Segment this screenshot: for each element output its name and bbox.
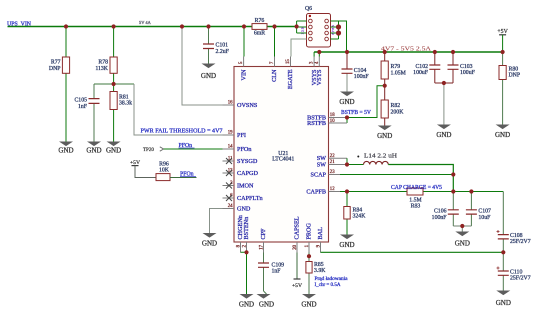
svg-text:1nF: 1nF (272, 269, 282, 275)
svg-text:CAP CHARGE = 4V5: CAP CHARGE = 4V5 (391, 185, 442, 191)
svg-text:16: 16 (228, 101, 233, 106)
capacitor C101 (203, 27, 230, 64)
power +5V (R96 pull-up) (130, 160, 156, 178)
resistor R80 (499, 52, 520, 125)
junction PROG pin / R85 (307, 254, 311, 258)
node PFOn label (R96) (180, 171, 196, 177)
svg-text:RSTFB: RSTFB (307, 120, 326, 127)
junction SCAP wire / L14 node (451, 172, 455, 176)
wire PFI to U21 (134, 84, 223, 135)
junction Q6 drain + C104 / VSYS bus (345, 50, 349, 54)
capacitor C104 (342, 52, 370, 92)
wire C102 C103 join (435, 82, 453, 84)
svg-text:6mR: 6mR (254, 31, 265, 37)
svg-text:PWR FAIL THRESHOLD = 4V7: PWR FAIL THRESHOLD = 4V7 (141, 128, 223, 134)
svg-text:GND: GND (237, 205, 251, 212)
junction BSTFB-RSTFB pins (345, 115, 349, 119)
svg-text:4V7 - 5V5 2.5A: 4V7 - 5V5 2.5A (381, 46, 432, 52)
svg-text:GND: GND (436, 131, 451, 139)
ground (R82) (377, 126, 392, 140)
svg-text:R84: R84 (353, 207, 363, 213)
wire SW bracket (347, 158, 364, 164)
svg-text:14: 14 (228, 145, 233, 150)
capacitor C109 (258, 253, 284, 295)
power +5V (top right) (497, 29, 508, 52)
junction Q6 drain bracket upper (336, 24, 341, 29)
svg-text:GND: GND (106, 146, 121, 154)
junction C106 / CAP CHARGE node (451, 189, 455, 193)
junction OVSNS tap / UPS_VIN bus (180, 24, 184, 28)
svg-text:17: 17 (259, 244, 264, 249)
junction VSYS pins / VSYS bus (317, 50, 321, 54)
svg-text:GND: GND (259, 300, 274, 308)
svg-text:C104: C104 (354, 68, 367, 74)
junction R84 / CAPFB wire (345, 189, 349, 193)
svg-text:DNP: DNP (509, 73, 521, 79)
svg-text:R81: R81 (119, 94, 129, 100)
svg-text:GND: GND (201, 72, 216, 80)
junction +5V R80 / VSYS bus (501, 50, 505, 54)
capacitor C106 (432, 192, 459, 227)
ground (C109) (257, 294, 275, 308)
capacitor C105 (74, 84, 99, 142)
op-amp U21 LTC4041 body (234, 67, 329, 243)
capacitor C102 (413, 52, 440, 83)
junction CLN pin drop / bus after R76 (272, 24, 276, 28)
svg-text:GND: GND (339, 98, 354, 106)
svg-text:100nF: 100nF (432, 215, 448, 221)
capacitor C110 supercap (497, 252, 531, 290)
svg-text:C107: C107 (478, 209, 491, 215)
wire VSYS bus 4V7-5V5 (314, 51, 503, 53)
resistor R83 (407, 188, 423, 210)
junction R79-R82 divider (BSTFB node) (383, 84, 387, 88)
svg-text:CAPSEL: CAPSEL (294, 216, 301, 239)
node UPS_VIN (7, 21, 32, 27)
svg-text:EGATE: EGATE (287, 69, 294, 89)
resistor R78 (95, 27, 117, 85)
junction VIN pin drop / UPS_VIN bus (242, 24, 246, 28)
svg-text:C105: C105 (74, 98, 87, 104)
wire L14 to SCAP node (388, 165, 453, 192)
svg-text:3.9K: 3.9K (314, 268, 326, 274)
junction R77 / UPS_VIN bus (64, 24, 68, 28)
svg-text:LTC4041: LTC4041 (272, 157, 294, 163)
svg-text:GND: GND (86, 146, 101, 154)
svg-text:SYSGD: SYSGD (237, 158, 258, 165)
svg-text:R79: R79 (391, 64, 401, 70)
ground (U21 GND) (202, 233, 217, 247)
capacitor C108 supercap (497, 192, 531, 253)
svg-text:OVSNS: OVSNS (237, 102, 258, 109)
svg-text:R85: R85 (314, 262, 324, 268)
wire UPS_VIN top bus (8, 26, 297, 28)
resistor R81 (110, 84, 132, 142)
svg-text:I_chr = 0.5A: I_chr = 0.5A (315, 282, 341, 288)
svg-text:24: 24 (228, 204, 233, 209)
ground (C102 C103) (436, 125, 451, 139)
svg-text:12: 12 (330, 187, 335, 192)
ground (C101) (201, 64, 216, 81)
svg-text:SCAP: SCAP (311, 171, 327, 178)
inductor L14 (357, 153, 398, 164)
svg-text:BSTFB = 5V: BSTFB = 5V (341, 110, 372, 116)
ground (R81) (106, 142, 121, 155)
svg-text:113K: 113K (95, 66, 108, 72)
svg-text:Q6: Q6 (305, 6, 312, 12)
capacitor C103 (448, 52, 476, 83)
junction CHGENn-BSTENn pins (244, 250, 248, 254)
svg-text:2.2uF: 2.2uF (216, 49, 230, 55)
svg-text:10K: 10K (159, 168, 170, 174)
wire CAPFB row (340, 191, 503, 193)
svg-text:C103: C103 (460, 64, 473, 70)
ground (C105) (86, 142, 101, 155)
node PFOn label (179, 143, 195, 149)
svg-text:PFI: PFI (237, 132, 246, 139)
wire Q6 source bracket (297, 21, 307, 33)
svg-text:CAPGD: CAPGD (237, 170, 259, 177)
svg-text:15: 15 (286, 59, 291, 64)
junction C103 / VSYS bus (451, 50, 455, 54)
svg-text:GND: GND (496, 299, 511, 307)
svg-text:25F/2V7: 25F/2V7 (510, 276, 531, 282)
svg-text:19: 19 (228, 131, 233, 136)
svg-text:GND: GND (58, 146, 73, 154)
ground (C104) (339, 92, 354, 107)
svg-text:100uF: 100uF (413, 70, 429, 76)
U21 left pins (223, 101, 263, 213)
capacitor C107 (466, 192, 491, 227)
svg-text:TP20: TP20 (143, 148, 154, 153)
svg-text:CLN: CLN (271, 69, 278, 82)
wire CLN drop (274, 27, 276, 57)
resistor R85 (306, 253, 326, 295)
svg-text:+5V: +5V (497, 29, 508, 35)
svg-text:200K: 200K (391, 109, 405, 115)
junction R78 / UPS_VIN bus (112, 24, 116, 28)
U21 top pins (239, 57, 323, 90)
svg-text:10: 10 (330, 119, 335, 124)
junction C102-C103 ground join (442, 81, 446, 85)
svg-text:VIN: VIN (240, 69, 247, 81)
svg-text:18: 18 (330, 113, 335, 118)
junction supercap midpoint / BAL wire (501, 250, 505, 254)
svg-text:GND: GND (301, 300, 316, 308)
wire U21 GND pin (210, 209, 223, 234)
svg-text:VSYS: VSYS (316, 69, 323, 85)
wire CHGENn BSTENn join (241, 252, 247, 294)
wire Q6 drain bracket (331, 21, 347, 52)
wire BSTFB feedback (347, 86, 385, 123)
node TP20 (143, 147, 164, 153)
svg-text:38.3k: 38.3k (119, 101, 132, 107)
svg-text:R78: R78 (98, 60, 108, 66)
junction C107 / CAP CHARGE node (469, 189, 473, 193)
junction Q6 source bracket / bus (295, 24, 299, 28)
svg-text:CAPFLTn: CAPFLTn (237, 195, 263, 202)
svg-text:100uF: 100uF (460, 70, 476, 76)
resistor R79 (381, 52, 406, 86)
resistor R84 (344, 192, 366, 235)
wire SCAP (340, 174, 453, 176)
svg-text:CPF: CPF (260, 228, 267, 240)
svg-text:BAL: BAL (317, 227, 324, 240)
node charge current annotation (315, 276, 349, 288)
svg-text:C101: C101 (216, 43, 229, 49)
no-connect X marks (226, 158, 232, 201)
svg-text:C109: C109 (272, 263, 285, 269)
svg-text:10uF: 10uF (478, 215, 491, 221)
resistor R76 (252, 18, 267, 37)
svg-text:5V 4A: 5V 4A (139, 20, 152, 25)
svg-text:BSTENn: BSTENn (243, 217, 250, 240)
svg-text:GND: GND (495, 131, 510, 139)
U21 right pins (306, 113, 347, 195)
junction C106-C107 ground join (460, 224, 464, 228)
wire VIN drop (243, 27, 245, 57)
junction Q6 drain bracket lower (336, 30, 341, 35)
svg-text:1.05M: 1.05M (391, 70, 406, 76)
junction SW pins (345, 162, 349, 166)
junction C102 / VSYS bus (433, 50, 437, 54)
svg-text:GND: GND (239, 300, 254, 308)
svg-text:21: 21 (330, 160, 335, 165)
junction R79 / VSYS bus (383, 50, 387, 54)
ground (R80) (495, 125, 510, 139)
ground (C110) (496, 291, 511, 308)
wire PFOn to U21 (164, 148, 223, 150)
svg-text:20: 20 (293, 244, 298, 249)
transistor Q6 (301, 6, 336, 47)
wire BAL to supercap midpoint (321, 251, 504, 253)
svg-text:25F/2V7: 25F/2V7 (510, 239, 531, 245)
svg-text:C106: C106 (434, 209, 447, 215)
wire C106 C107 join (453, 226, 471, 232)
junction R78-R81 divider (PFI node) (112, 82, 116, 86)
svg-text:R76: R76 (255, 18, 265, 24)
svg-text:R77: R77 (51, 60, 61, 66)
svg-text:GND: GND (339, 241, 354, 249)
svg-text:C102: C102 (415, 64, 428, 70)
svg-text:23: 23 (330, 170, 335, 175)
svg-text:GND: GND (377, 132, 392, 140)
ground (R77) (58, 142, 73, 155)
ground (C106 C107) (455, 232, 470, 248)
svg-text:324K: 324K (353, 214, 367, 220)
svg-text:R80: R80 (509, 66, 519, 72)
svg-text:DNP: DNP (49, 66, 61, 72)
svg-text:L14 2.2 uH: L14 2.2 uH (364, 153, 398, 159)
svg-text:PROG: PROG (306, 222, 313, 239)
svg-text:SW: SW (317, 161, 326, 168)
power +5V (CAPSEL) (292, 253, 302, 290)
svg-text:C108: C108 (510, 233, 523, 239)
svg-text:1nF: 1nF (78, 104, 88, 110)
svg-text:+5V: +5V (130, 160, 140, 166)
svg-text:22: 22 (330, 154, 335, 159)
svg-text:IMON: IMON (237, 182, 254, 189)
svg-text:100nF: 100nF (354, 74, 370, 80)
svg-text:GND: GND (455, 240, 470, 248)
svg-text:R83: R83 (411, 204, 421, 210)
svg-text:CAPFB: CAPFB (306, 188, 326, 195)
svg-text:C110: C110 (510, 270, 522, 276)
junction C101 / UPS_VIN bus (206, 24, 210, 28)
resistor R77 (49, 27, 70, 142)
svg-text:PFOn: PFOn (237, 146, 251, 153)
resistor R96 (156, 162, 197, 181)
svg-text:+5V: +5V (292, 283, 302, 289)
wire PFI divider node (94, 83, 134, 85)
resistor R82 (381, 86, 404, 126)
ground (R84) (339, 235, 354, 249)
ground (CHGENn) (239, 294, 254, 308)
svg-text:GND: GND (202, 239, 217, 247)
ground (R85) (301, 294, 316, 308)
wire OVSNS (182, 27, 223, 106)
U21 bottom pins (236, 215, 324, 252)
svg-text:R82: R82 (391, 103, 401, 109)
wire Q6 gate to EGATE (291, 39, 307, 57)
